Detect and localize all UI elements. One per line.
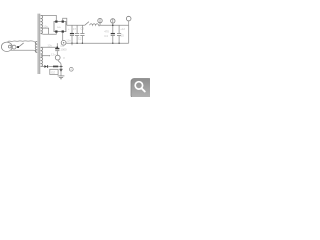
wire (secondary tap step): [41, 28, 49, 34]
svg-text:C3: C3: [80, 27, 84, 31]
switch S1: [16, 43, 24, 47]
wire (top +V rail, right part): [100, 24, 129, 26]
node (rail junction dots): [71, 24, 120, 44]
wire (bridge - output down to 0V node): [62, 33, 64, 41]
wire (secondary2 top lead): [41, 46, 57, 48]
test point TP1 lead: [99, 18, 101, 25]
transformer T1 secondary winding (lower): [41, 47, 43, 66]
wire: [58, 66, 63, 68]
fuse F1 (dark bar): [53, 66, 58, 68]
svg-text:C2: C2: [78, 37, 82, 41]
wire (secondary top lead to bridge AC1): [41, 15, 56, 20]
ground: [58, 76, 65, 79]
wire (cap to meter): [56, 51, 58, 55]
capacitor C2: [75, 25, 79, 43]
wire (right output drop): [128, 25, 130, 43]
wire: [48, 66, 53, 68]
node (switch junction dot): [17, 46, 19, 48]
output terminal J1 circle: [126, 16, 131, 21]
wire (lower branch from 0V rail): [56, 43, 58, 48]
wire (meter down to lower node): [58, 60, 61, 67]
capacitor C3: [80, 25, 84, 43]
wire (secondary2 bottom lead): [41, 65, 44, 67]
node (tap arrowhead): [49, 55, 51, 57]
svg-text:+12: +12: [120, 27, 125, 31]
svg-text:C4: C4: [104, 34, 108, 38]
wire (tick below rail at C1): [71, 43, 73, 45]
meter M1: [55, 55, 60, 60]
wire (secondary lower lead to bridge AC2): [41, 33, 56, 35]
transformer T1 core: [38, 14, 40, 74]
node (0V terminal circle): [61, 40, 66, 45]
svg-text:12v: 12v: [43, 24, 48, 28]
inductor L1: [90, 24, 100, 26]
node (junction dot): [60, 66, 62, 68]
svg-text:V: V: [63, 56, 65, 60]
svg-text:1000: 1000: [60, 48, 67, 52]
zener diode D2: [60, 68, 63, 70]
label (cap values, faint): [43, 24, 125, 56]
transformer T1 primary winding: [35, 41, 37, 52]
output terminal J1 lead: [128, 21, 130, 25]
zoom button: [131, 79, 152, 99]
wire (to ground): [60, 67, 62, 76]
capacitor C1: [70, 25, 74, 43]
bridge rectifier U1: [54, 22, 66, 32]
wire (top +V rail, left part): [67, 24, 85, 26]
bridge terminal pad (bottom-right): [62, 30, 64, 32]
wire (bottom 0V rail): [66, 42, 129, 44]
svg-text:12v: 12v: [47, 43, 52, 47]
bridge terminal pad (top-right): [62, 20, 64, 22]
wire (bottom mains conductor): [11, 50, 37, 52]
svg-text:47: 47: [73, 27, 77, 31]
transformer T1 secondary winding (upper): [41, 15, 43, 33]
test point TP2 lead: [112, 19, 114, 26]
wire (secondary2 mid tap): [41, 55, 49, 57]
svg-text:≈≈: ≈≈: [57, 25, 61, 29]
bridge terminal pad (bottom-left): [55, 30, 57, 32]
svg-text:12v: 12v: [66, 38, 71, 42]
component box (regulator): [50, 69, 58, 74]
svg-text:12v: 12v: [51, 52, 56, 56]
bridge terminal pad (top-left): [55, 20, 57, 22]
label (circled 4): [69, 67, 73, 71]
capacitor C4: [111, 25, 115, 43]
switch S2 on rail: [85, 22, 89, 26]
test point TP1 circle: [98, 18, 102, 22]
capacitor C6 (electrolytic, lower): [55, 48, 59, 50]
diode D1: [44, 65, 47, 68]
test point TP2 circle: [111, 19, 115, 23]
wire (bridge + output up-step to top rail): [63, 18, 67, 25]
wire (mains cord, wavy top conductor): [8, 41, 37, 44]
svg-text:C5: C5: [120, 34, 124, 38]
AC plug P1: [1, 42, 16, 51]
node (junction dot): [56, 46, 58, 48]
svg-text:DZ: DZ: [51, 70, 55, 74]
capacitor C5: [117, 25, 121, 43]
svg-text:+: +: [68, 27, 70, 31]
